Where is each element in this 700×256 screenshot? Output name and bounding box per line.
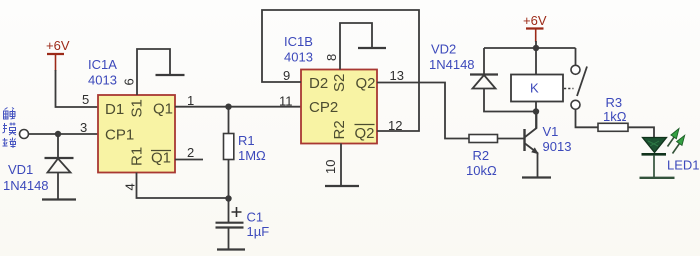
svg-text:Q1: Q1 <box>151 150 171 167</box>
svg-text:Q2: Q2 <box>355 125 375 142</box>
svg-text:12: 12 <box>388 118 402 133</box>
svg-text:LED1: LED1 <box>667 158 700 173</box>
svg-text:+6V: +6V <box>523 13 547 28</box>
svg-text:1N4148: 1N4148 <box>3 178 49 193</box>
svg-text:9: 9 <box>283 68 290 83</box>
svg-text:R2: R2 <box>473 148 490 163</box>
svg-text:D1: D1 <box>105 101 124 118</box>
svg-text:10: 10 <box>323 160 338 174</box>
svg-text:R1: R1 <box>129 147 146 166</box>
svg-text:D2: D2 <box>309 75 328 92</box>
svg-text:11: 11 <box>279 94 293 109</box>
svg-text:VD1: VD1 <box>8 162 33 177</box>
svg-text:C1: C1 <box>247 210 264 225</box>
svg-text:R2: R2 <box>331 120 348 139</box>
svg-text:IC1A: IC1A <box>88 57 117 72</box>
svg-text:1: 1 <box>187 93 194 108</box>
svg-text:S1: S1 <box>129 99 146 117</box>
svg-text:CP1: CP1 <box>105 127 134 144</box>
svg-text:1MΩ: 1MΩ <box>238 148 266 163</box>
svg-text:Q2: Q2 <box>356 75 376 92</box>
svg-text:4013: 4013 <box>88 73 117 88</box>
svg-text:4: 4 <box>123 183 138 190</box>
svg-text:Q1: Q1 <box>153 101 173 118</box>
svg-text:CP2: CP2 <box>309 99 338 116</box>
svg-text:V1: V1 <box>543 124 559 139</box>
svg-text:1µF: 1µF <box>247 224 270 239</box>
svg-text:2: 2 <box>187 145 194 160</box>
svg-text:6: 6 <box>122 78 137 85</box>
svg-text:IC1B: IC1B <box>284 34 313 49</box>
svg-text:4013: 4013 <box>284 50 313 65</box>
svg-text:R1: R1 <box>238 133 255 148</box>
svg-text:9013: 9013 <box>543 139 572 154</box>
svg-text:5: 5 <box>82 92 89 107</box>
svg-text:13: 13 <box>390 68 404 83</box>
svg-text:1kΩ: 1kΩ <box>603 109 627 124</box>
svg-text:K: K <box>530 81 539 96</box>
svg-text:R3: R3 <box>606 95 623 110</box>
svg-text:S2: S2 <box>331 74 348 92</box>
svg-text:VD2: VD2 <box>431 42 456 57</box>
svg-text:8: 8 <box>324 54 339 61</box>
svg-text:+6V: +6V <box>46 38 70 53</box>
svg-text:3: 3 <box>80 120 87 135</box>
svg-text:1N4148: 1N4148 <box>429 57 475 72</box>
svg-text:10kΩ: 10kΩ <box>466 163 497 178</box>
